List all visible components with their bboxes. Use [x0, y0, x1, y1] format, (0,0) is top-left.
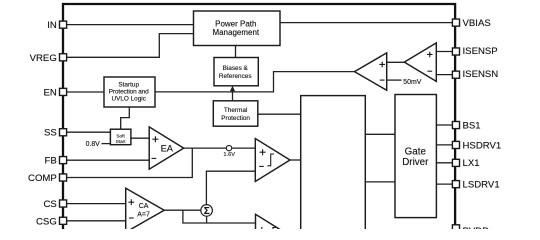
- svg-text:CSG: CSG: [36, 216, 57, 227]
- svg-text:VREG: VREG: [30, 53, 57, 64]
- svg-text:EA: EA: [161, 144, 174, 154]
- lower comparator hysteresis glyph (partial): [270, 228, 277, 240]
- comparator current limit (bottom, cut off): [256, 214, 291, 240]
- op-amp EA: [149, 127, 184, 169]
- svg-text:EN: EN: [43, 87, 56, 98]
- op-amp gain stage (left-pointing): [355, 53, 387, 90]
- pin COMP: [60, 174, 67, 181]
- wire 50mV stub: [387, 79, 402, 81]
- wire Thermal Protection to logic box: [258, 113, 301, 115]
- wire logic box to Gate Driver lower: [365, 181, 395, 183]
- block Thermal Protection: [213, 101, 257, 126]
- gain amp minus: [380, 79, 385, 81]
- pin CS: [60, 200, 67, 207]
- wire EA output to PWM comparator: [184, 147, 255, 149]
- svg-text:ISENSN: ISENSN: [463, 69, 499, 80]
- outer block border: [63, 4, 455, 229]
- svg-text:HSDRV1: HSDRV1: [463, 140, 502, 151]
- wire EN to Startup box: [67, 91, 104, 93]
- pin SS: [60, 129, 67, 136]
- svg-text:Biases &: Biases &: [223, 65, 249, 72]
- svg-text:ISENSP: ISENSP: [463, 46, 498, 57]
- svg-text:0.8V: 0.8V: [86, 141, 101, 148]
- block Gate Driver: [395, 95, 436, 218]
- svg-text:References: References: [219, 73, 252, 80]
- pin IN: [60, 21, 67, 28]
- svg-text:Gate: Gate: [405, 146, 427, 157]
- block Biases & References: [214, 58, 258, 86]
- sense amp plus: [427, 52, 433, 58]
- wire EN from Startup box to current amp output: [155, 72, 355, 92]
- svg-text:A=7: A=7: [137, 212, 150, 219]
- CA plus: [128, 199, 134, 205]
- svg-text:Thermal: Thermal: [224, 107, 247, 114]
- arrowhead into Biases & References: [230, 86, 235, 91]
- svg-text:VBIAS: VBIAS: [463, 18, 491, 29]
- wire summer bottom stub: [206, 216, 208, 223]
- wire PPM to Biases: [235, 46, 237, 58]
- block Power Path Management: [194, 11, 281, 46]
- PWM plus: [260, 149, 266, 155]
- svg-text:50mV: 50mV: [403, 79, 421, 86]
- wire ISENSP to sense amp: [436, 51, 452, 53]
- block Soft Start: [110, 129, 130, 145]
- wire COMP to EA output: [67, 148, 193, 177]
- pin FB: [60, 157, 67, 164]
- PWM minus: [259, 165, 264, 167]
- svg-text:1.6V: 1.6V: [223, 152, 235, 158]
- wire arrow into Biases bottom: [232, 90, 234, 101]
- svg-text:UVLO Logic: UVLO Logic: [111, 95, 146, 102]
- PWM hysteresis glyph: [267, 154, 274, 166]
- svg-text:Σ: Σ: [204, 206, 210, 217]
- svg-text:CA: CA: [139, 203, 149, 210]
- EA plus: [152, 136, 158, 142]
- pin VREG: [60, 54, 67, 61]
- pin HSDRV1: [452, 141, 459, 148]
- wire CA output branch to lower comparator: [183, 210, 256, 223]
- summer sigma: [201, 205, 213, 217]
- lower comparator plus (partial): [259, 227, 265, 233]
- block Startup Protection and UVLO Logic: [104, 77, 155, 107]
- comparator PWM: [255, 139, 290, 182]
- svg-text:COMP: COMP: [28, 173, 57, 184]
- wire FB to EA minus: [67, 159, 150, 161]
- node 1.6V offset: [226, 145, 231, 150]
- wire CA output to summer: [164, 209, 201, 211]
- wire Gate Driver to BS1: [436, 124, 452, 126]
- pin LX1: [452, 159, 459, 166]
- wire Gate Driver to HSDRV1: [436, 144, 452, 146]
- wire PWM output to logic box: [290, 159, 301, 161]
- wire CSG to CA minus: [67, 220, 126, 222]
- pin ISENSN: [452, 71, 459, 78]
- pin PVDD (cut off): [452, 225, 459, 232]
- svg-text:Soft: Soft: [116, 134, 125, 139]
- wire Gate Driver to LSDRV1: [436, 183, 452, 185]
- pin VBIAS: [452, 19, 459, 26]
- svg-text:LX1: LX1: [463, 158, 480, 169]
- EA minus: [152, 157, 157, 159]
- svg-text:LSDRV1: LSDRV1: [463, 180, 500, 191]
- wire VREG to Power Path Management: [67, 34, 194, 58]
- svg-text:Management: Management: [212, 28, 259, 37]
- pin EN: [60, 88, 67, 95]
- wire Startup box to Soft Start: [121, 107, 130, 129]
- svg-text:IN: IN: [47, 20, 57, 31]
- wire ISENSN to sense amp: [436, 74, 452, 76]
- wire Gate Driver to LX1: [436, 162, 452, 164]
- wire IN to Power Path Management: [67, 24, 194, 26]
- svg-text:Driver: Driver: [402, 157, 429, 168]
- op-amp current sense (right): [404, 43, 436, 82]
- pin CSG: [60, 217, 67, 224]
- svg-text:PVDD: PVDD: [463, 226, 490, 229]
- svg-text:BS1: BS1: [463, 120, 481, 131]
- wire sense amp to gain amp plus: [387, 61, 405, 63]
- wire CS to CA plus: [67, 203, 126, 205]
- wire 0.8V stub: [102, 143, 111, 145]
- svg-text:Protection: Protection: [221, 115, 250, 122]
- pin BS1: [452, 122, 459, 129]
- CA minus: [129, 217, 134, 219]
- svg-text:FB: FB: [45, 156, 57, 167]
- pin ISENSP: [452, 48, 459, 55]
- block logic (tall center box): [301, 96, 366, 236]
- svg-text:CS: CS: [43, 199, 56, 210]
- sense amp minus: [427, 70, 432, 72]
- wire Soft Start to EA plus: [131, 137, 149, 139]
- svg-text:Startup: Startup: [118, 81, 139, 88]
- wire logic box to Gate Driver upper: [365, 133, 395, 135]
- pin LSDRV1: [452, 181, 459, 188]
- wire PWM minus from summer: [206, 171, 255, 204]
- gain amp plus: [379, 62, 385, 68]
- svg-text:SS: SS: [44, 128, 57, 139]
- wire PPM to VBIAS: [280, 22, 452, 24]
- svg-text:Start: Start: [116, 139, 127, 144]
- op-amp CA: [126, 188, 165, 232]
- wire SS to Soft Start: [67, 131, 111, 133]
